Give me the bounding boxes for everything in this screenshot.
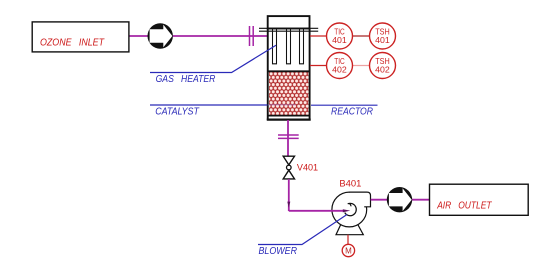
svg-text:401: 401 (375, 35, 390, 45)
base (336, 224, 363, 235)
svg-text:402: 402 (332, 65, 347, 75)
heater tube 3 (300, 28, 304, 63)
catalyst bed (269, 72, 309, 115)
vessel top cap (268, 16, 310, 28)
AIR OUTLET box (430, 184, 529, 215)
instrument TSH 402 (370, 53, 396, 79)
svg-text:AIR OUTLET: AIR OUTLET (436, 201, 492, 212)
catalyst line showthrough (268, 104, 296, 106)
svg-text:V401: V401 (297, 163, 318, 174)
svg-text:OZONE INLET: OZONE INLET (40, 38, 105, 49)
BLOWER label (258, 215, 347, 258)
instrument TIC 401 (327, 23, 353, 49)
svg-text:CATALYST: CATALYST (155, 107, 199, 118)
arrowhead down (287, 202, 290, 208)
valve V401 (283, 156, 294, 179)
volute outline (349, 192, 370, 207)
REACTOR label (311, 105, 378, 117)
CATALYST label (150, 105, 268, 118)
flange pair bottom (278, 134, 299, 136)
bed top line (268, 70, 310, 72)
svg-text:REACTOR: REACTOR (331, 107, 373, 118)
OZONE INLET box (32, 22, 129, 52)
instrument TIC 402 (327, 53, 353, 79)
motor M (342, 244, 354, 256)
heater tube 2 (287, 28, 291, 63)
svg-text:401: 401 (332, 35, 347, 45)
svg-text:402: 402 (375, 65, 390, 75)
casing circle (332, 192, 367, 227)
reactor vessel (259, 16, 318, 120)
motor link (347, 235, 349, 245)
vessel walls (267, 28, 269, 120)
arrowhead right (343, 209, 350, 212)
instrument TSH 401 (370, 23, 396, 49)
flange pair inlet (249, 26, 251, 46)
wire valve to blower (288, 179, 290, 211)
wire reactor outlet (287, 120, 289, 157)
volute cover (349, 192, 370, 207)
GAS HEATER label (150, 45, 276, 85)
heater tube 1 (273, 28, 277, 63)
instrument signal lines (310, 35, 327, 37)
wire blower outlet (371, 199, 430, 201)
flow arrow symbol 1 (148, 23, 173, 48)
vessel bottom (267, 118, 311, 120)
svg-text:M: M (345, 246, 352, 255)
bed bottom line (268, 115, 310, 117)
impeller spiral (345, 203, 357, 215)
blower B401 (332, 192, 371, 235)
wire ozone inlet line (129, 35, 268, 37)
wire to blower center (289, 210, 344, 212)
svg-text:GAS HEATER: GAS HEATER (156, 74, 216, 85)
svg-text:B401: B401 (339, 179, 361, 190)
flow arrow symbol 2 (387, 187, 412, 212)
svg-text:BLOWER: BLOWER (259, 246, 298, 257)
flange lines (259, 27, 318, 29)
